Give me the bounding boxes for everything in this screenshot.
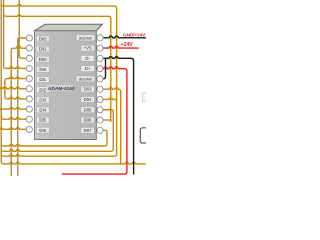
pin 19 right D06 (81, 117, 94, 123)
IC part number backdrop (47, 85, 74, 91)
pin 14 right D+ (81, 66, 94, 72)
pin 15 right (B)GND (76, 76, 94, 82)
wire GND wire to right edge (103, 36, 146, 38)
wire pin DI2 to left edge (0, 87, 26, 89)
wire pin D03 down to bus4 junction (103, 87, 121, 163)
svg-text:DI6: DI6 (39, 128, 46, 133)
svg-text:DI4: DI4 (39, 108, 46, 113)
cropped component edge at right (upper) (143, 93, 148, 102)
wire pin DI4 to left edge (0, 107, 26, 109)
wire pin D00 up to top edge (19, 0, 26, 58)
wire net busA top / vertical x117 / bottom bus3 (1, 4, 116, 157)
wire pin D02 down to bottom edge (18, 38, 27, 176)
wire (B)GND row5 riser to D- junction (103, 58, 105, 79)
IC U1 ADAM-4150 top face (35, 24, 103, 31)
svg-text:D01: D01 (39, 47, 47, 52)
wire net pin D05 / bottom bus2 (1, 109, 113, 151)
wire pin D01 down to bottom edge (11, 46, 26, 176)
cropped component box at right edge (lower rounded) (140, 128, 152, 143)
svg-text:(B)GND: (B)GND (79, 77, 93, 81)
svg-text:DI1: DI1 (39, 77, 46, 82)
wire D+ wire down and along bottom (62, 67, 127, 174)
pin 12 right +VS (81, 45, 94, 51)
svg-text:D-: D- (85, 56, 90, 61)
wire net busB top / vertical x111.6 to pin D06 junction (4, 14, 111, 122)
wire pin DI6 to left edge (0, 128, 26, 130)
svg-text:D00: D00 (39, 57, 47, 62)
pin 6 left DI2 (26, 86, 32, 92)
svg-text:GND/+24V: GND/+24V (123, 33, 146, 38)
wire pin D04 to vertical VA junction (103, 98, 117, 100)
pin 3 left D00 (26, 55, 32, 61)
pin 8 left DI4 (26, 106, 32, 112)
wire pin D06 stub (103, 119, 111, 121)
pin 10 left DI6 (26, 126, 32, 132)
svg-text:+24V: +24V (121, 42, 134, 48)
pin 17 right D04 (81, 97, 94, 103)
svg-text:D06: D06 (84, 118, 92, 123)
svg-text:D03: D03 (84, 87, 92, 92)
wire left vertical S2 to pin DI0 (4, 0, 27, 68)
svg-text:+VS: +VS (83, 46, 91, 51)
pin 13 right D- (81, 55, 94, 61)
wire left spine S1 and bottom bus4 to right edge (1, 0, 146, 164)
IC U1 ADAM-4150 body (35, 31, 97, 140)
svg-text:D04: D04 (84, 97, 92, 102)
pin 5 left DI1 (26, 76, 32, 82)
svg-text:ADAM-4150: ADAM-4150 (48, 86, 75, 92)
svg-text:DI2: DI2 (39, 87, 46, 92)
pin 9 left DI5 (26, 116, 32, 122)
svg-text:D+: D+ (85, 66, 91, 71)
wire net pin DI1 / connector S3 / pin DI3 (5, 77, 26, 99)
wire net pin D07 / bottom bus1 (1, 130, 107, 146)
pin 2 left D01 (26, 45, 32, 51)
svg-text:D02: D02 (39, 37, 47, 42)
svg-text:DI0: DI0 (39, 67, 46, 72)
svg-text:(B)GND: (B)GND (79, 36, 93, 40)
svg-text:DI5: DI5 (39, 118, 46, 123)
pin 18 right D05 (81, 107, 94, 113)
wire pin DI5 hook (2, 115, 27, 120)
svg-text:DI3: DI3 (39, 97, 46, 102)
wire +VS wire to +24V (103, 46, 139, 48)
svg-text:D07: D07 (84, 128, 92, 133)
pin 20 right D07 (81, 127, 94, 133)
pin 7 left DI3 (26, 96, 32, 102)
pin 16 right D03 (81, 86, 94, 92)
wire D- wire down right side (103, 57, 134, 175)
pin 4 left DI0 (26, 65, 32, 71)
svg-text:D05: D05 (84, 107, 92, 112)
pin 11 right (B)GND (76, 35, 94, 41)
pin 1 left D02 (26, 35, 32, 41)
